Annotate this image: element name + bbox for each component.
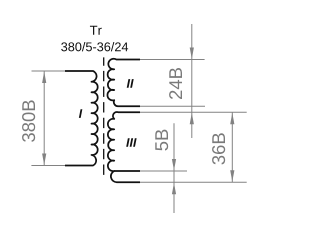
extension line III top	[140, 111, 247, 113]
transformer label Tr	[90, 26, 102, 35]
extension line III bottom	[140, 181, 247, 183]
extension line II top	[140, 59, 205, 61]
extension line primary top	[32, 70, 66, 72]
transformer core	[103, 57, 105, 178]
winding III tap wire	[114, 170, 140, 172]
dimension 5V top arrow	[172, 159, 176, 171]
dimension 5V text	[155, 130, 168, 151]
winding III label	[126, 138, 136, 147]
dimension 380V top arrow	[42, 72, 46, 84]
dimension 24V text	[169, 68, 182, 99]
winding II label	[127, 79, 134, 88]
winding II with wires	[107, 59, 140, 106]
dimension 380V bottom arrow	[42, 154, 46, 166]
dimension 36V line	[231, 112, 233, 182]
winding I label	[79, 109, 82, 118]
dimension 5V bottom arrow	[172, 183, 176, 195]
dimension 24V bottom arrow	[190, 113, 194, 125]
dimension 5V line	[173, 123, 175, 213]
winding III with wires	[108, 112, 140, 182]
extension line primary bottom	[31, 165, 65, 167]
extension line II bottom	[140, 105, 205, 107]
dimension 380V line	[43, 71, 45, 166]
dimension 24V line	[191, 24, 193, 138]
extension line tap	[140, 170, 187, 172]
dimension 36V bottom arrow	[230, 170, 234, 182]
dimension 36V text	[212, 133, 225, 164]
dimension 36V top arrow	[230, 113, 234, 125]
dimension 380V text	[22, 100, 35, 142]
transformer value 380/5-36/24	[61, 42, 128, 51]
dimension 24V top arrow	[190, 48, 194, 60]
winding I (primary) with wires	[65, 71, 98, 166]
